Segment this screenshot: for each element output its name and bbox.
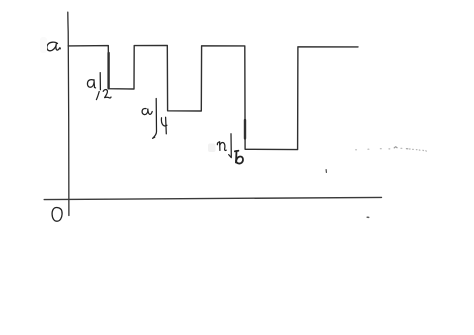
wire thick drop 1 xyxy=(107,53,109,88)
node dotted continuation xyxy=(356,147,427,151)
node faint smudge left of a label xyxy=(40,37,47,53)
node faint smudge left of a/6 xyxy=(208,144,216,153)
x-axis xyxy=(44,197,381,199)
node a (y-axis label) xyxy=(47,42,60,51)
wire step curve xyxy=(68,45,358,149)
node small tick xyxy=(325,170,327,173)
node small dot xyxy=(367,216,369,218)
wire thick drop 3 xyxy=(244,120,246,139)
node 0 (origin label) xyxy=(52,207,62,221)
node a/4 label xyxy=(142,99,167,139)
node a/2 label xyxy=(87,73,111,100)
y-axis xyxy=(68,12,69,215)
node a/6 label xyxy=(217,134,243,164)
